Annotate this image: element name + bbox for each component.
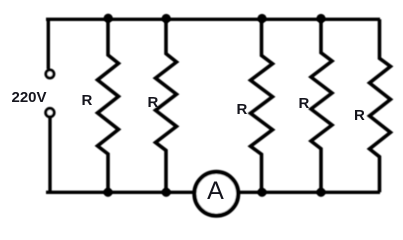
junction dot: top bus / R3 <box>257 14 266 23</box>
junction dot: bottom bus / R1 <box>103 188 112 197</box>
wire: bottom bus right of ammeter <box>239 191 381 194</box>
svg-text:R: R <box>82 92 93 109</box>
wire: bottom bus left of ammeter <box>46 191 195 194</box>
junction dot: top bus / R1 <box>104 14 113 23</box>
resistor R3 <box>251 19 273 192</box>
svg-text:R: R <box>354 107 365 124</box>
resistor R2 <box>156 19 177 192</box>
resistor R1 <box>98 19 119 192</box>
junction dot: top bus / R2 <box>162 14 171 23</box>
resistor R4 <box>311 19 332 192</box>
wire: top bus <box>46 18 380 21</box>
junction dot: bottom bus / R3 <box>257 188 266 197</box>
source terminal (bottom) <box>46 108 54 116</box>
svg-text:R: R <box>148 94 159 111</box>
wire: left vertical upper segment <box>47 19 50 69</box>
svg-text:A: A <box>207 177 224 205</box>
junction dot: top bus / R4 <box>316 14 325 23</box>
junction dot: bottom bus / R2 <box>162 188 171 197</box>
ammeter A (meter circle) <box>194 172 238 216</box>
svg-text:R: R <box>237 101 248 118</box>
wire: left vertical lower segment <box>48 118 51 192</box>
source terminal (top) <box>46 70 54 78</box>
wire: right vertical (R5 branch leads) <box>377 18 380 22</box>
resistor R5 <box>370 19 391 192</box>
svg-text:220V: 220V <box>12 89 47 106</box>
junction dot: bottom bus / R4 <box>316 188 325 197</box>
svg-text:R: R <box>299 95 310 112</box>
